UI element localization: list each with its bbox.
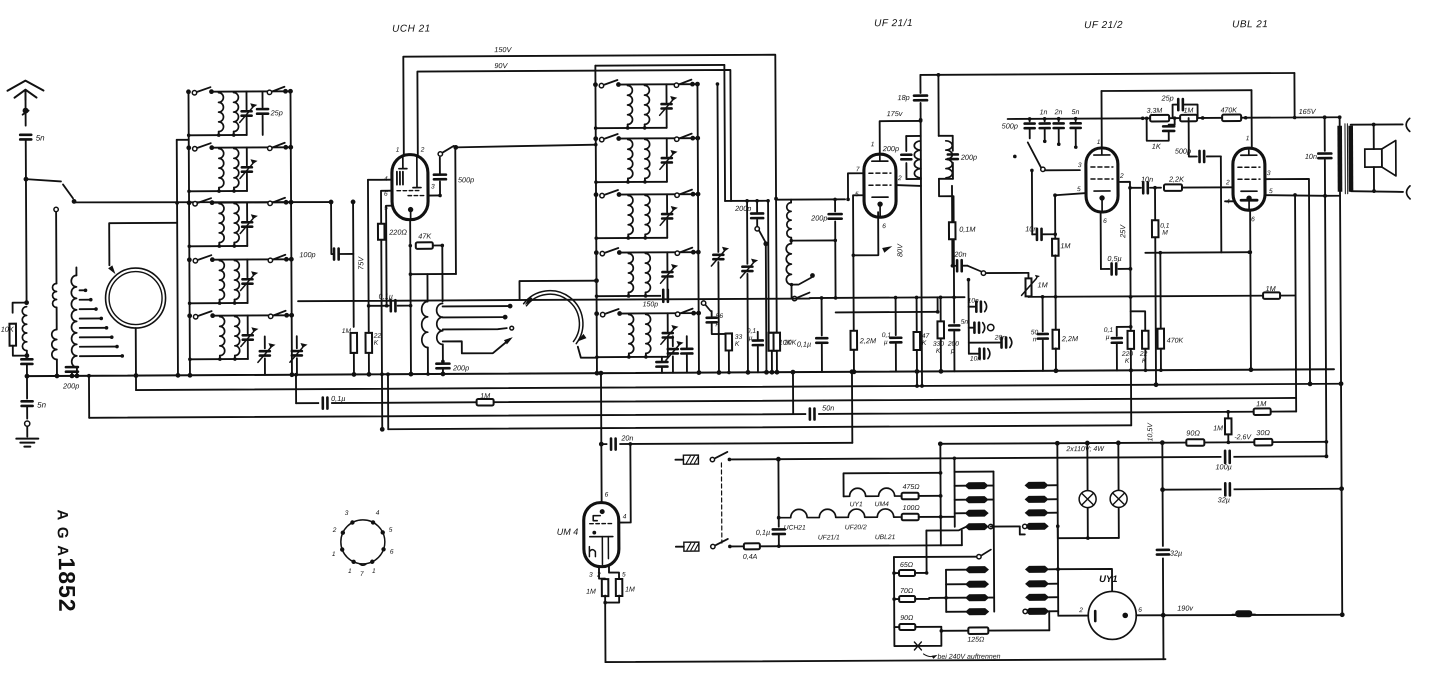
capacitor 25p (bridge) — [1173, 105, 1177, 119]
wire to 10K — [13, 303, 27, 313]
svg-text:UF20/2: UF20/2 — [845, 524, 867, 531]
wire matrix top feed — [595, 64, 724, 67]
svg-text:5n: 5n — [1072, 109, 1080, 116]
resistor 90Ω (bias) — [1186, 439, 1204, 446]
svg-text:100µ: 100µ — [1215, 462, 1231, 471]
resistor 3,3M — [1150, 115, 1169, 122]
wire antenna down — [25, 140, 27, 178]
band row 3: bottom bar — [596, 237, 667, 239]
wire bus B3 — [296, 398, 1296, 403]
tube socket pinout — [341, 520, 385, 564]
fuse 0,4A — [730, 545, 744, 547]
switch contact (IF1 tap) — [790, 283, 794, 287]
svg-text:0,1: 0,1 — [882, 332, 892, 339]
wire speaker top lead — [1373, 125, 1375, 149]
capacitor (row5 padder) — [686, 336, 688, 347]
wire — [56, 307, 58, 329]
wire bus B6 — [601, 443, 852, 444]
svg-text:1: 1 — [396, 147, 400, 154]
svg-text:6: 6 — [1103, 218, 1107, 225]
svg-text:1M: 1M — [1266, 284, 1277, 293]
svg-text:5: 5 — [1077, 186, 1081, 193]
svg-text:K: K — [374, 340, 379, 347]
band row 4: switch contact left — [187, 257, 192, 262]
wire tap link — [991, 525, 1020, 527]
svg-text:6: 6 — [390, 549, 394, 556]
IF1 winding B — [786, 244, 791, 285]
svg-text:56: 56 — [716, 313, 724, 320]
svg-text:32µ: 32µ — [1218, 495, 1230, 504]
capacitor 2n — [1057, 117, 1061, 121]
wire HV to UY1 anode — [1056, 567, 1060, 571]
output transformer — [1337, 126, 1342, 192]
band row 1: trimmer capacitor — [245, 91, 247, 109]
wire 10K bottom — [13, 346, 27, 356]
svg-text:1M: 1M — [586, 589, 596, 596]
band row 2: switch contact right — [268, 146, 272, 150]
band row 5: trimmer capacitor — [247, 315, 249, 333]
band row 4: switch contact left — [594, 250, 599, 255]
svg-text:1: 1 — [871, 141, 875, 148]
svg-text:3: 3 — [1078, 162, 1082, 169]
resistor 125Ω — [968, 627, 988, 634]
wire — [26, 427, 28, 437]
svg-text:165V: 165V — [1299, 107, 1317, 116]
wire B7 line — [778, 456, 1326, 459]
wire tap rail — [893, 557, 895, 627]
svg-text:6: 6 — [605, 492, 609, 499]
wire — [853, 350, 855, 371]
svg-text:5: 5 — [622, 571, 626, 578]
svg-text:475Ω: 475Ω — [903, 484, 921, 491]
svg-text:0,1µ: 0,1µ — [797, 340, 811, 349]
wire pin5 / cathode network — [853, 195, 865, 331]
wire B6 feed down to UM4 — [600, 373, 603, 502]
band row 5: switch contact right — [268, 314, 272, 318]
svg-text:K: K — [922, 340, 927, 347]
capacitor 10n (tone 2) — [969, 353, 978, 355]
capacitor (antenna series) — [21, 359, 32, 364]
capacitor 10n (speaker) — [1324, 117, 1326, 150]
wire — [1057, 526, 1059, 538]
wire detector line y=298 — [810, 296, 965, 299]
svg-text:175v: 175v — [887, 109, 903, 118]
svg-text:K: K — [735, 341, 740, 348]
wire mains line right — [760, 545, 962, 546]
svg-text:UY1: UY1 — [1099, 574, 1118, 585]
capacitor 1K (grid RC) — [1174, 118, 1176, 124]
IF2 right unit (winding + cap 200p) — [937, 75, 939, 136]
capacitor 5n (ground leg) — [22, 401, 33, 406]
svg-text:10n: 10n — [970, 356, 981, 363]
svg-text:1: 1 — [332, 551, 336, 558]
svg-text:47K: 47K — [418, 232, 432, 241]
svg-text:n: n — [1033, 336, 1037, 343]
switch (antenna selector) — [26, 179, 61, 182]
wire UM4 to bottom rail — [604, 596, 606, 662]
band row 4: switch contact right — [675, 251, 679, 255]
resistor 1M (on B3) — [477, 399, 494, 406]
wire — [55, 212, 57, 283]
svg-text:220Ω: 220Ω — [388, 228, 407, 237]
svg-text:6: 6 — [882, 223, 886, 230]
svg-text:2: 2 — [332, 527, 337, 534]
capacitor 0,1µ (cathode) — [1117, 326, 1131, 328]
wire — [834, 240, 836, 297]
resistor 475Ω (heater chain) — [902, 493, 919, 500]
wire coupling coil top — [75, 267, 77, 275]
wire transformer right rail — [1056, 443, 1059, 614]
resistor 100Ω (heater chain) — [902, 514, 919, 521]
volume potentiometer 1M — [1027, 273, 1029, 277]
band row 2: trimmer capacitor — [246, 147, 248, 165]
capacitor 50n (AVC) — [1041, 295, 1045, 299]
capacitor 500p (tone corr) — [1189, 118, 1197, 157]
band row 4: top bar — [619, 251, 693, 253]
wire pin4 to 22K column — [368, 179, 392, 181]
band row 3: bottom bar — [189, 245, 247, 247]
tube UY1 (rectifier) — [1088, 591, 1136, 639]
IF transformer 1 top bar — [776, 198, 845, 200]
band row 3: trimmer capacitor — [666, 194, 668, 212]
svg-text:6: 6 — [1138, 607, 1142, 614]
band row 2: coil A — [628, 139, 633, 178]
resistor 1M (bias divider) — [1227, 441, 1231, 445]
band row 4: bottom bar — [190, 302, 248, 304]
wire — [1020, 533, 1025, 535]
band row 3: switch contact left — [594, 192, 599, 197]
wire L165 line y=120 — [1008, 117, 1340, 119]
svg-text:47: 47 — [922, 333, 930, 340]
svg-text:5: 5 — [389, 527, 393, 534]
resistor 1M (UM4 right) — [609, 567, 619, 579]
wire UY1 cathode 190V — [1136, 614, 1342, 616]
capacitor 200p (IF1) — [834, 199, 836, 211]
svg-text:1: 1 — [372, 568, 376, 575]
wire 25V cathode line (pin2 column) — [1120, 182, 1131, 331]
svg-text:20n: 20n — [953, 250, 966, 259]
wire rectifier heater tap — [1049, 610, 1058, 612]
band row 5: bottom bar — [597, 356, 668, 358]
wire cathode column — [409, 220, 412, 374]
coil (tapped transformer) — [71, 275, 77, 367]
svg-text:0,1µ: 0,1µ — [331, 394, 345, 403]
wire pin3 to B2 — [1265, 179, 1310, 384]
ground connector — [25, 421, 30, 426]
band row 2: top bar — [212, 146, 286, 148]
band row 2: coil B — [234, 149, 239, 188]
tone capacitor cluster — [967, 278, 971, 282]
coil L1b — [52, 329, 57, 359]
taps of tapped coil — [80, 289, 86, 291]
svg-text:100p: 100p — [299, 250, 315, 259]
wire switch to B7 — [729, 458, 778, 460]
capacitor 0,5µ — [1101, 268, 1109, 270]
band row 1: switch contact left — [186, 89, 191, 94]
wire pin1 anode up — [1250, 90, 1252, 148]
wire — [769, 332, 772, 334]
wire — [442, 344, 444, 361]
svg-text:1K: 1K — [1152, 142, 1162, 151]
capacitor 10n (IF3 top) — [1031, 170, 1033, 234]
wire down to RL — [25, 181, 28, 303]
band row 4: coil A — [219, 261, 224, 300]
svg-text:500p: 500p — [1175, 147, 1191, 156]
svg-text:6: 6 — [384, 191, 388, 198]
svg-text:2: 2 — [1078, 607, 1083, 614]
wire UF21/1 pin2 to IF2 — [896, 185, 921, 186]
resistor 90Ω — [899, 624, 915, 630]
svg-text:5n: 5n — [36, 134, 45, 143]
tube UF21/2 — [1086, 148, 1118, 212]
thick cathode bar UBL21 — [1241, 199, 1257, 202]
svg-text:2: 2 — [1119, 173, 1124, 180]
wire top supply line y=76 — [920, 73, 1294, 75]
wire — [1293, 73, 1295, 117]
wire bus B5 — [388, 425, 1131, 429]
wire 175V line — [880, 121, 921, 154]
wire B3-B4 right jog — [1295, 398, 1297, 411]
band row 5: coil B — [235, 317, 240, 356]
svg-text:20n: 20n — [994, 335, 1006, 342]
band row 1: top bar — [211, 90, 285, 92]
resistor 1M (AVC divider) — [1052, 239, 1059, 256]
oscillator coil A — [422, 302, 428, 348]
padder trimmer A (left matrix) — [264, 336, 266, 348]
band row 1: bottom bar — [596, 127, 667, 129]
node — [24, 353, 29, 358]
capacitor 150p — [661, 290, 670, 301]
wire pin6 down to bus — [1249, 210, 1252, 369]
capacitor 0,1µ (det row 2) — [894, 296, 898, 300]
svg-text:0,1: 0,1 — [1160, 223, 1170, 230]
wire pin4 stub — [1225, 200, 1233, 202]
IF2 left unit (cap 200p + winding) — [906, 135, 920, 137]
wire to mixer matrix (y=144) — [456, 145, 596, 148]
resistor 10K (antenna) — [9, 324, 16, 346]
wire -10,5V rail — [1162, 443, 1163, 659]
band row 3: switch contact left — [187, 200, 192, 205]
band row 5: switch contact left — [594, 311, 599, 316]
svg-text:p: p — [950, 348, 955, 355]
svg-text:1852: 1852 — [54, 557, 80, 612]
wire — [442, 369, 444, 373]
svg-text:1M: 1M — [1184, 108, 1194, 115]
svg-text:18p: 18p — [898, 93, 910, 102]
switch contact (IF1 lower) — [791, 287, 793, 299]
band row 5: top bar — [213, 314, 287, 316]
capacitor 5n — [1074, 117, 1078, 121]
svg-text:3,3M: 3,3M — [1147, 108, 1163, 115]
band row 2: trimmer capacitor — [666, 138, 668, 156]
band row 2: coil B — [645, 139, 650, 178]
band switch left rail — [188, 92, 189, 375]
svg-text:500p: 500p — [1002, 121, 1018, 130]
resistor 470K (screen feed) — [1159, 251, 1163, 255]
band row 2: switch contact right — [675, 137, 679, 141]
band row 1: top bar — [618, 83, 692, 85]
band row 1: coil B — [233, 93, 238, 132]
dial lamp 1 — [1086, 443, 1088, 490]
svg-text:UY1: UY1 — [850, 501, 863, 508]
svg-text:2,2M: 2,2M — [859, 336, 877, 345]
band row 5: coil A — [220, 317, 225, 356]
wire pin7 to IF1 — [848, 173, 864, 199]
svg-text:UF 21/1: UF 21/1 — [874, 18, 913, 29]
wire speaker bottom lead — [1373, 167, 1375, 191]
node — [134, 373, 139, 378]
node — [75, 373, 80, 378]
wire — [790, 238, 792, 244]
wire IF2 to detector line — [939, 179, 954, 298]
wire UY1 heater from transformer — [1058, 615, 1088, 617]
node — [70, 373, 75, 378]
svg-text:100Ω: 100Ω — [903, 505, 921, 512]
svg-text:µ: µ — [884, 339, 888, 346]
capacitor 1n — [1043, 117, 1047, 121]
svg-text:470K: 470K — [1167, 338, 1184, 345]
svg-text:A G A: A G A — [54, 509, 71, 557]
wire osc coil A to bus — [427, 348, 429, 374]
resistor 1M (grid) — [1180, 115, 1197, 122]
resistor 0,1M (AVC) — [951, 186, 953, 223]
wire to chassis bus — [26, 365, 28, 376]
wire B3 left end — [295, 375, 297, 403]
svg-text:30Ω: 30Ω — [1256, 428, 1270, 437]
resistor 330K — [939, 296, 943, 300]
wire pin1 up / line y=93 — [1100, 91, 1102, 148]
wire — [1048, 611, 1050, 630]
wire y=255 (grid return) — [1145, 251, 1249, 254]
capacitor (mid matrix bottom) — [661, 357, 663, 360]
oscillator coil B — [437, 303, 443, 344]
resistor 65Ω — [899, 570, 915, 576]
wire pin4 of UM4 — [618, 444, 630, 523]
wire indicator to bus — [135, 328, 137, 375]
wire secondary top — [1351, 123, 1403, 125]
svg-text:5n: 5n — [961, 319, 969, 326]
resistor 1M (AVC right) — [1263, 292, 1280, 299]
svg-text:2: 2 — [420, 147, 425, 154]
wire mains to primary tap — [961, 530, 963, 545]
wire — [937, 297, 939, 311]
svg-text:UM4: UM4 — [875, 501, 889, 508]
band row 5: bottom bar — [190, 358, 248, 360]
svg-text:500p: 500p — [458, 175, 474, 184]
wire — [177, 139, 189, 141]
capacitor 10n (tone) — [969, 306, 975, 308]
svg-text:1: 1 — [348, 568, 352, 575]
wire — [368, 353, 370, 374]
wire heater feed rail — [939, 444, 942, 545]
band row 1: coil A — [218, 93, 223, 132]
band row 2: switch contact left — [593, 136, 598, 141]
svg-text:3: 3 — [1267, 170, 1271, 177]
svg-text:90V: 90V — [494, 61, 508, 70]
resistor 10K (detector row) — [775, 199, 778, 333]
wire bus B2 — [136, 384, 1341, 390]
svg-text:1: 1 — [1097, 139, 1101, 146]
svg-text:K: K — [1125, 358, 1130, 365]
svg-text:125Ω: 125Ω — [967, 637, 985, 644]
svg-text:90Ω: 90Ω — [900, 615, 914, 622]
svg-text:M: M — [1162, 230, 1168, 237]
svg-text:2: 2 — [897, 175, 902, 182]
band row 4: switch contact right — [268, 258, 272, 262]
svg-text:50: 50 — [1031, 329, 1039, 336]
svg-text:80V: 80V — [895, 243, 904, 257]
padder trimmer B (left matrix) — [296, 336, 298, 348]
band switch right rail — [290, 91, 291, 374]
capacitor 20n + switch — [951, 264, 955, 268]
resistor 22K — [365, 333, 372, 353]
svg-text:1: 1 — [1246, 135, 1250, 142]
svg-text:-10,5V: -10,5V — [1147, 422, 1154, 444]
wire — [1019, 526, 1021, 534]
wire osc switch down to coil — [454, 147, 457, 274]
capacitor 200p (det) — [953, 297, 955, 322]
capacitor 200p (osc) — [436, 364, 449, 369]
svg-text:3: 3 — [589, 572, 593, 579]
svg-text:2,2M: 2,2M — [1061, 334, 1079, 343]
band row 4: top bar — [212, 258, 286, 260]
capacitor 0,1µ (osc grid) — [369, 305, 389, 307]
resistor 10K (mid) — [767, 201, 770, 333]
tuning indicator circle — [105, 268, 165, 328]
wire 240V link with cut mark — [894, 627, 941, 646]
capacitor 0,1µ (on B3) — [319, 398, 331, 409]
wire below bus — [26, 376, 28, 398]
choke bead (190V line) — [1235, 610, 1252, 617]
wire transformer top rail / -10,5V line — [940, 442, 1327, 444]
svg-text:10n: 10n — [1025, 224, 1037, 233]
filament chain upper (UY1 UM4) — [843, 473, 940, 497]
transformer left column wiring — [953, 458, 955, 526]
capacitor 0,1µ (mid) — [757, 332, 759, 339]
svg-text:2,2K: 2,2K — [1168, 175, 1185, 184]
wire cathode-coil link — [410, 273, 455, 275]
band row 3: trimmer capacitor — [246, 202, 248, 220]
svg-text:32µ: 32µ — [1170, 549, 1182, 558]
svg-text:2x110V; 4W: 2x110V; 4W — [1065, 446, 1105, 453]
wire main chassis bus B1 — [27, 369, 1334, 376]
node — [55, 374, 60, 379]
wire — [56, 359, 58, 375]
wire pin5 / speaker line — [1265, 195, 1325, 196]
svg-text:200p: 200p — [734, 204, 751, 213]
wire to osc coil left — [426, 274, 428, 301]
wire switch to UF21/2 grid — [1045, 169, 1080, 171]
svg-text:50n: 50n — [822, 403, 834, 412]
svg-text:µ: µ — [1106, 334, 1110, 341]
wave-change switch arm — [1013, 155, 1017, 159]
svg-text:10n: 10n — [1141, 175, 1153, 184]
resistor 47K (det row) — [915, 296, 919, 300]
band row 5: switch contact right — [675, 312, 679, 316]
ground — [16, 439, 38, 447]
wire pin5 to AVC column — [1055, 193, 1086, 195]
capacitor 10n (coupling) — [1130, 187, 1141, 189]
band row 1: switch contact left — [593, 82, 598, 87]
band row 3: top bar — [212, 201, 286, 203]
resistor 70Ω — [899, 596, 915, 602]
wire to indicator pointer — [109, 223, 177, 265]
capacitor 5n (antenna) — [20, 135, 31, 140]
antenna — [7, 81, 43, 100]
wire — [26, 407, 28, 419]
band row 3: coil B — [645, 195, 650, 234]
padder trimmer (mid matrix) — [672, 336, 674, 346]
